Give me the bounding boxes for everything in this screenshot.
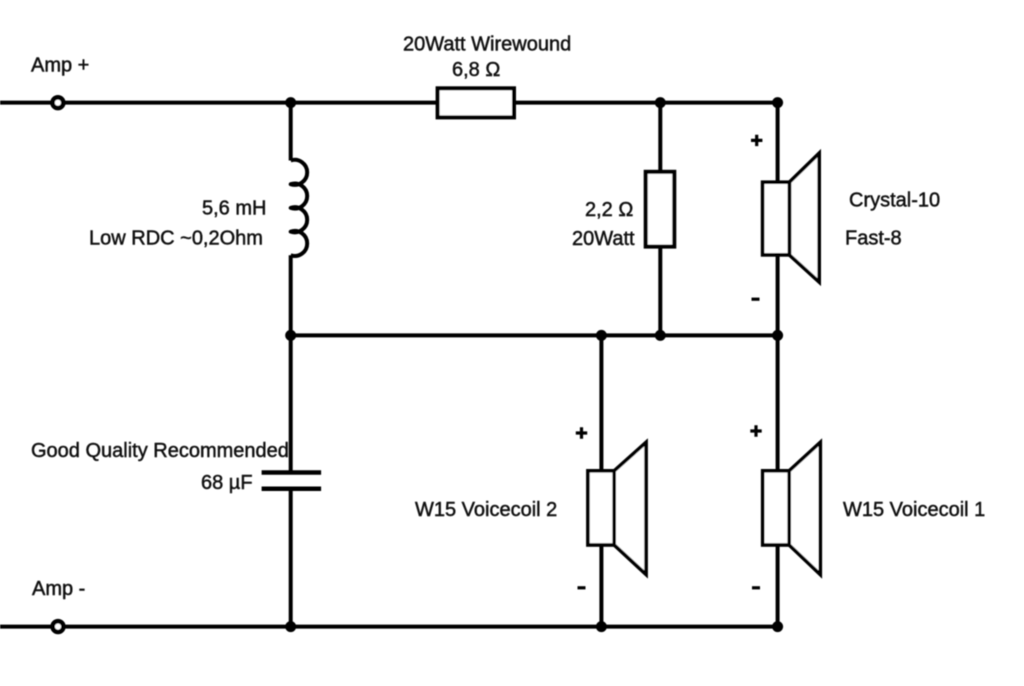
resistor R 6,8 Ohm body <box>438 88 514 117</box>
polarity minus voicecoil 1 <box>752 586 760 589</box>
terminal Amp - <box>53 621 64 632</box>
junction top at resistor 2,2 <box>655 97 666 108</box>
speaker W15 Voicecoil 2 horn <box>614 442 646 574</box>
wire bottom horizontal <box>0 625 778 629</box>
wire crystal branch lower <box>776 253 780 335</box>
wire W15 voicecoil 1 branch lower <box>776 544 780 627</box>
junction top at inductor <box>285 97 296 108</box>
svg-text:W15 Voicecoil 1: W15 Voicecoil 1 <box>843 499 985 521</box>
wire inductor branch upper <box>289 103 293 161</box>
capacitor C 68 uF plate bottom <box>262 486 322 491</box>
svg-text:Crystal-10: Crystal-10 <box>849 189 940 211</box>
svg-text:Fast-8: Fast-8 <box>845 228 902 250</box>
speaker W15 Voicecoil 2 driver <box>588 471 614 545</box>
svg-text:Low RDC ~0,2Ohm: Low RDC ~0,2Ohm <box>89 227 263 249</box>
terminal Amp + <box>53 97 64 108</box>
wire W15 voicecoil 2 branch lower <box>599 544 603 627</box>
svg-text:5,6 mH: 5,6 mH <box>202 197 266 219</box>
svg-text:20Watt: 20Watt <box>572 228 635 250</box>
wire inductor to capacitor <box>289 255 293 470</box>
svg-text:68 µF: 68 µF <box>201 472 253 494</box>
polarity plus crystal <box>751 135 762 146</box>
svg-text:20Watt Wirewound: 20Watt Wirewound <box>403 34 571 56</box>
junction middle at inductor branch <box>285 330 296 341</box>
polarity plus voicecoil 1 <box>750 425 761 436</box>
wire crystal branch upper <box>776 103 780 184</box>
junction bottom at capacitor branch <box>285 621 296 632</box>
wire capacitor to bottom <box>289 491 293 627</box>
svg-text:W15 Voicecoil 2: W15 Voicecoil 2 <box>415 499 557 521</box>
wire W15 voicecoil 1 branch upper <box>776 335 780 472</box>
polarity minus crystal <box>752 298 760 301</box>
wire top horizontal <box>0 101 778 105</box>
resistor R 2,2 Ohm body <box>646 172 675 247</box>
svg-text:Amp +: Amp + <box>31 55 89 77</box>
wire W15 voicecoil 2 branch upper <box>599 335 603 472</box>
wire resistor 2,2 branch upper <box>658 103 662 173</box>
speaker Crystal-10 driver <box>763 182 790 255</box>
speaker W15 Voicecoil 1 horn <box>789 442 820 574</box>
svg-text:Amp -: Amp - <box>32 578 85 600</box>
junction bottom at voicecoil 2 <box>596 621 607 632</box>
junction middle at voicecoil 2 <box>596 330 607 341</box>
speaker Crystal-10 horn <box>789 153 819 282</box>
svg-text:Good Quality Recommended: Good Quality Recommended <box>31 440 289 462</box>
speaker W15 Voicecoil 1 driver <box>763 471 790 545</box>
junction middle at resistor 2,2 <box>655 330 666 341</box>
inductor L 5,6 mH <box>291 160 307 256</box>
svg-text:6,8 Ω: 6,8 Ω <box>452 59 500 81</box>
svg-text:2,2 Ω: 2,2 Ω <box>585 199 633 221</box>
wire resistor 2,2 branch lower <box>658 245 662 335</box>
polarity plus voicecoil 2 <box>576 427 587 438</box>
capacitor C 68 uF plate top <box>262 470 322 475</box>
junction top right corner <box>772 97 783 108</box>
wire middle horizontal <box>291 333 778 337</box>
junction middle right <box>772 330 783 341</box>
polarity minus voicecoil 2 <box>578 586 586 589</box>
junction bottom right <box>772 621 783 632</box>
